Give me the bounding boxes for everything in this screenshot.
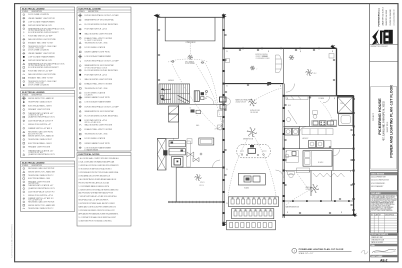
svg-text:SYMBOL: SYMBOL bbox=[22, 95, 28, 97]
plan: foyer wall upper bbox=[283, 48, 285, 83]
svg-text:DOOR CHIME LOCATION: DOOR CHIME LOCATION bbox=[85, 137, 106, 140]
plan: keynote flag bottom-center bbox=[222, 221, 227, 225]
svg-text:FLOOR MOUNTED DUPLEX RECEPTACL: FLOOR MOUNTED DUPLEX RECEPTACL bbox=[85, 114, 119, 117]
legend box B: ELECTRICAL LEGEND (switches) bbox=[21, 91, 75, 158]
svg-text:TELEPHONE / DATA OUTLET: TELEPHONE / DATA OUTLET bbox=[28, 138, 53, 141]
plan: circuit wiring arcs bbox=[168, 43, 223, 131]
svg-text:LOW VOLTAGE TRANSFORMER: LOW VOLTAGE TRANSFORMER bbox=[85, 146, 112, 149]
svg-text:$: $ bbox=[334, 98, 335, 100]
svg-text:QUADPLEX RECEPTACLE OUTL: QUADPLEX RECEPTACLE OUTL bbox=[28, 153, 55, 156]
svg-text:ELECTRICAL LEGEND: ELECTRICAL LEGEND bbox=[22, 161, 45, 164]
svg-text:TELEVISION OUTLET - RG6: TELEVISION OUTLET - RG6 bbox=[85, 134, 108, 136]
svg-text:WALL MOUNTED LIGHT FIXTURE: WALL MOUNTED LIGHT FIXTURE bbox=[85, 78, 113, 81]
svg-text:TELEPHONE / DATA OUTLET C: TELEPHONE / DATA OUTLET C bbox=[28, 207, 54, 210]
svg-text:SYMBOL: SYMBOL bbox=[22, 165, 28, 167]
svg-text:SYMBOL: SYMBOL bbox=[22, 11, 28, 13]
svg-text:DOOR OPENER: DOOR OPENER bbox=[185, 63, 195, 65]
title block: company info (rotated) bbox=[379, 7, 396, 26]
svg-text:ELECTRICAL NOTES: ELECTRICAL NOTES bbox=[79, 153, 100, 156]
svg-text:RECESSED CAN LIGHT FIXTUR: RECESSED CAN LIGHT FIXTUR bbox=[28, 167, 55, 170]
plan: kitchen island bbox=[237, 145, 270, 158]
plan: master bath fixtures bbox=[284, 168, 354, 201]
plan: ceiling fan dining bbox=[306, 70, 317, 76]
svg-text:FLOOR MOUNTED DUPLEX RECEPT: FLOOR MOUNTED DUPLEX RECEPT bbox=[28, 67, 59, 69]
svg-text:ELECTRICAL LEGEND: ELECTRICAL LEGEND bbox=[79, 7, 102, 10]
svg-text:RECESSED CAN LIGHT FIXTUR: RECESSED CAN LIGHT FIXTUR bbox=[28, 200, 55, 203]
svg-text:457 JUAN LANE, FAIRHOPE AL 365: 457 JUAN LANE, FAIRHOPE AL 36532 bbox=[383, 101, 386, 141]
svg-text:DESCRIPTION: DESCRIPTION bbox=[32, 11, 42, 13]
svg-text:$: $ bbox=[332, 51, 333, 53]
svg-text:POWER AND LIGHTING PLAN -1ST F: POWER AND LIGHTING PLAN -1ST FLOOR bbox=[299, 248, 344, 251]
svg-text:$: $ bbox=[287, 212, 288, 214]
svg-text:$: $ bbox=[227, 51, 228, 53]
plan: wall-mounted panel on living wall bbox=[267, 82, 271, 85]
plan: bottom wall bbox=[284, 214, 354, 216]
svg-text:220V RECEPTACLE OUTLET F: 220V RECEPTACLE OUTLET F bbox=[28, 119, 53, 122]
svg-text:DESCRIPTION: DESCRIPTION bbox=[32, 165, 42, 167]
legend box C: ELECTRICAL LEGEND (low voltage) bbox=[21, 161, 75, 212]
plan: porch band 2 bbox=[232, 209, 274, 219]
title block left divider bbox=[369, 4, 371, 262]
svg-text:AE-2: AE-2 bbox=[380, 258, 387, 262]
plan: main electrical panel bbox=[220, 97, 253, 109]
plan: south hatched wall bbox=[168, 201, 224, 203]
plan: open deck rectangle bbox=[165, 17, 215, 44]
title block: drawn-by bar bbox=[370, 233, 397, 244]
svg-text:SMOKE DETECTOR - HARD WIR: SMOKE DETECTOR - HARD WIR bbox=[28, 170, 56, 173]
svg-text:ELECTRICAL PANEL - SEE R: ELECTRICAL PANEL - SEE R bbox=[28, 142, 52, 145]
svg-text:THERMOSTAT LOCATION +60": THERMOSTAT LOCATION +60" bbox=[28, 112, 54, 115]
svg-text:WEATHERPROOF GFCI RECEPTAC: WEATHERPROOF GFCI RECEPTAC bbox=[85, 110, 115, 113]
plan: kitchen counters and appliances bbox=[284, 96, 337, 127]
reviewer pencil mark bbox=[361, 250, 368, 254]
svg-text:$: $ bbox=[268, 51, 269, 53]
title block: divider under logo bbox=[370, 45, 398, 62]
title block: LJB logo (rotated glyph blob) bbox=[372, 29, 393, 44]
plan: laundry room bbox=[284, 126, 354, 170]
plan: closet column with X braces bbox=[157, 139, 167, 171]
plan: porch band 1 bbox=[228, 197, 278, 207]
svg-text:DOOR CHIME LOCATION: DOOR CHIME LOCATION bbox=[85, 46, 106, 49]
plan: switch bank by stairs bbox=[161, 90, 208, 101]
svg-text:DESCRIPTION: DESCRIPTION bbox=[385, 215, 394, 217]
drawing title bubble bbox=[292, 248, 352, 255]
svg-text:QUADPLEX RECEPTACLE OUTL: QUADPLEX RECEPTACLE OUTL bbox=[28, 187, 55, 190]
svg-text:PHONE 251.555.0188: PHONE 251.555.0188 bbox=[390, 10, 392, 26]
svg-text:DOOR CHIME LOCATION: DOOR CHIME LOCATION bbox=[28, 13, 49, 16]
plan: hall wall bbox=[178, 105, 180, 139]
svg-text:FOUR WAY SWITCH +42" A: FOUR WAY SWITCH +42" A bbox=[85, 119, 108, 122]
svg-text:THERMOSTAT LOCATION +60": THERMOSTAT LOCATION +60" bbox=[28, 149, 54, 152]
svg-text:KP: KP bbox=[197, 115, 199, 117]
svg-text:QUADPLEX RECEPTACLE OUTL: QUADPLEX RECEPTACLE OUTL bbox=[28, 116, 55, 119]
svg-text:06.14.23 CONSTRUCTION: 06.14.23 CONSTRUCTION bbox=[371, 180, 389, 182]
plan: top right niche bbox=[226, 54, 335, 63]
plan: keynote flag top-center bbox=[222, 13, 227, 17]
svg-text:CT: CT bbox=[190, 107, 192, 109]
plan: ceiling fan master bbox=[310, 185, 318, 193]
plan: closet top wall bbox=[157, 138, 178, 140]
svg-text:SMOKE DETECTOR - HARD WIR: SMOKE DETECTOR - HARD WIR bbox=[28, 204, 56, 207]
svg-text:TELEVISION OUTLET - RG6: TELEVISION OUTLET - RG6 bbox=[85, 88, 108, 90]
title block: project cell border bbox=[370, 87, 398, 171]
svg-text:SMOKE DETECTOR - HARD WI: SMOKE DETECTOR - HARD WI bbox=[28, 97, 54, 100]
title block: seal bar and signature bbox=[370, 244, 397, 253]
svg-text:FOUR WAY SWITCH +42" AFF: FOUR WAY SWITCH +42" AFF bbox=[28, 34, 52, 37]
svg-text:SINGLE POLE SWITCH +42" A: SINGLE POLE SWITCH +42" A bbox=[28, 194, 53, 197]
svg-text:DESCRIPTION: DESCRIPTION bbox=[88, 11, 98, 13]
plan: garage bottom wall bbox=[157, 104, 223, 106]
plan: garage door symbols bbox=[171, 60, 204, 65]
svg-text:07.01.23 REVISION 1: 07.01.23 REVISION 1 bbox=[371, 183, 385, 185]
svg-text:PROJECT: PROJECT bbox=[373, 113, 375, 121]
svg-text:$: $ bbox=[341, 212, 342, 214]
svg-text:EXHAUST FAN - VENT TO EXT: EXHAUST FAN - VENT TO EXT bbox=[28, 77, 54, 80]
plan: island counter 2 bbox=[238, 174, 265, 190]
plan: hall wall boxes bbox=[218, 111, 224, 130]
plan: bath partition and closet details bbox=[296, 171, 332, 202]
svg-text:RECESSED CAN LIGHT FIXTU: RECESSED CAN LIGHT FIXTU bbox=[28, 131, 54, 134]
svg-text:UNDER CABINET LIGHT FIXTU: UNDER CABINET LIGHT FIXTU bbox=[85, 142, 111, 145]
svg-text:FLOOR MOUNTED DUPLEX RECEPT: FLOOR MOUNTED DUPLEX RECEPT bbox=[28, 32, 59, 34]
plan: central thick wall (cased with rungs) bbox=[222, 15, 225, 227]
svg-text:POWER AND LIGHTING PLAN -1ST F: POWER AND LIGHTING PLAN -1ST FLOOR bbox=[390, 85, 394, 158]
plan: stairs with treads bbox=[159, 84, 190, 103]
plan: garage left wall bbox=[156, 17, 158, 104]
svg-text:$: $ bbox=[227, 86, 228, 88]
svg-text:$: $ bbox=[300, 51, 301, 53]
plan: master bed bbox=[286, 151, 332, 209]
svg-text:EXISTING CEILING: EXISTING CEILING bbox=[256, 54, 268, 56]
plan: dining fan cluster bbox=[250, 66, 257, 71]
svg-text:$: $ bbox=[286, 151, 287, 153]
svg-text:EXHAUST FAN - VENT TO EXT: EXHAUST FAN - VENT TO EXT bbox=[28, 41, 54, 44]
plan: ceiling fan great room bbox=[247, 128, 256, 137]
plan: study north wall bbox=[176, 160, 223, 168]
plan: keynote flag bottom-right bbox=[352, 213, 357, 217]
plan: circuit arcs right wing bbox=[228, 88, 332, 205]
plan: ceiling fan living bbox=[249, 99, 257, 106]
margin note (rotated faint text) bbox=[11, 223, 14, 258]
svg-text:ISSUE / REVISION: ISSUE / REVISION bbox=[371, 174, 384, 176]
legend box D: ELECTRICAL LEGEND (fixtures) bbox=[77, 7, 131, 151]
plan: curved stair / piano shape bbox=[276, 55, 283, 73]
svg-text:LOW VOLTAGE TRANSFORMER: LOW VOLTAGE TRANSFORMER bbox=[85, 55, 112, 58]
svg-text:$: $ bbox=[350, 171, 351, 173]
plan: right wall rungs bbox=[353, 98, 355, 211]
plan: keynote flag top-left bbox=[154, 14, 161, 18]
svg-text:FOUR WAY SWITCH +42" A: FOUR WAY SWITCH +42" A bbox=[85, 28, 108, 31]
svg-text:OPEN DECK: OPEN DECK bbox=[186, 42, 197, 44]
svg-text:TELEPHONE / DATA OUTLET C: TELEPHONE / DATA OUTLET C bbox=[28, 174, 54, 177]
svg-text:DINING: DINING bbox=[262, 56, 267, 58]
svg-text:CLOSET: CLOSET bbox=[306, 189, 311, 191]
title block: issue block bbox=[370, 172, 397, 190]
svg-text:LOW VOLTAGE TRANSFORMER: LOW VOLTAGE TRANSFORMER bbox=[85, 101, 112, 104]
svg-text:NO: NO bbox=[371, 215, 373, 217]
svg-text:$: $ bbox=[227, 169, 228, 171]
svg-text:$: $ bbox=[309, 171, 310, 173]
title block: project cell bbox=[373, 85, 394, 158]
svg-text:EXHAUST FAN - VENT TO EXTER: EXHAUST FAN - VENT TO EXTER bbox=[85, 128, 113, 131]
plan: receptacle symbols bbox=[158, 29, 353, 214]
svg-text:PENDANT LIGHT FIXTURE: PENDANT LIGHT FIXTURE bbox=[28, 146, 51, 149]
svg-text:$: $ bbox=[287, 98, 288, 100]
plan: right wing top wall bbox=[224, 47, 337, 50]
plan: media built-ins top of study bbox=[187, 138, 214, 145]
svg-text:STUDY: STUDY bbox=[200, 182, 205, 184]
svg-text:EXHAUST FAN - VENT TO EXTER: EXHAUST FAN - VENT TO EXTER bbox=[85, 82, 113, 85]
plan: garage top wall bbox=[157, 16, 223, 18]
svg-text:06.02.23 PERMIT SET: 06.02.23 PERMIT SET bbox=[371, 177, 386, 179]
plan: fireplace built-ins bbox=[169, 139, 190, 168]
svg-text:WALL MOUNTED LIGHT FIXTURE: WALL MOUNTED LIGHT FIXTURE bbox=[28, 38, 56, 41]
svg-text:TELEVISION OUTLET - RG6: TELEVISION OUTLET - RG6 bbox=[85, 42, 108, 44]
plan: porch steps band 3 bbox=[227, 220, 276, 230]
title block: sheet number bbox=[370, 255, 397, 262]
svg-text:$3: $3 bbox=[205, 94, 207, 96]
plan: jog wall bbox=[337, 95, 354, 97]
svg-text:SCALE: 1/4" = 1'-0": SCALE: 1/4" = 1'-0" bbox=[299, 252, 314, 255]
svg-text:FLOOR MOUNTED DUPLEX RECEPTACL: FLOOR MOUNTED DUPLEX RECEPTACL bbox=[85, 69, 119, 72]
svg-text:WALL MOUNTED LIGHT FIXTURE: WALL MOUNTED LIGHT FIXTURE bbox=[85, 124, 113, 127]
svg-text:UNDER CABINET LIGHT FIXTUR: UNDER CABINET LIGHT FIXTUR bbox=[28, 52, 55, 55]
svg-text:$: $ bbox=[173, 139, 174, 141]
plan: master closet boxes bbox=[285, 151, 298, 163]
svg-text:UNDER CABINET LIGHT FIXTUR: UNDER CABINET LIGHT FIXTUR bbox=[28, 17, 55, 20]
svg-text:PENDANT LIGHT FIXTURE: PENDANT LIGHT FIXTURE bbox=[28, 108, 51, 111]
plan: room labels bbox=[168, 56, 344, 187]
plan: study ceiling fan bbox=[195, 175, 201, 181]
legend box A: ELECTRICAL LEGEND (receptacles) bbox=[21, 7, 75, 88]
svg-text:LOW VOLTAGE TRANSFORMER: LOW VOLTAGE TRANSFORMER bbox=[28, 20, 55, 23]
svg-text:FOUR WAY SWITCH +42" A: FOUR WAY SWITCH +42" A bbox=[85, 73, 108, 76]
svg-text:MUD: MUD bbox=[288, 105, 291, 107]
svg-text:WEATHERPROOF GFCI RECEPTAC: WEATHERPROOF GFCI RECEPTAC bbox=[85, 19, 115, 22]
svg-text:ELECTRICAL LEGEND: ELECTRICAL LEGEND bbox=[22, 91, 45, 94]
plan: study west wall bbox=[175, 168, 177, 203]
svg-text:$: $ bbox=[227, 203, 228, 205]
plan: chase boxes bbox=[169, 106, 179, 122]
plan: switch symbols bbox=[227, 51, 352, 214]
svg-text:OFFICE: OFFICE bbox=[199, 185, 204, 187]
svg-text:WEATHERPROOF GFCI RECEPTACLE O: WEATHERPROOF GFCI RECEPTACLE OUTL bbox=[28, 63, 65, 66]
svg-text:LIVING ROOM: LIVING ROOM bbox=[250, 110, 260, 112]
svg-text:WEATHERPROOF GFCI RECEPTAC: WEATHERPROOF GFCI RECEPTAC bbox=[85, 64, 115, 67]
svg-text:CF-2: CF-2 bbox=[314, 73, 317, 75]
svg-text:FOUR WAY SWITCH +42" AFF: FOUR WAY SWITCH +42" AFF bbox=[28, 70, 52, 73]
svg-text:$: $ bbox=[23, 150, 24, 152]
svg-text:TELEVISION OUTLET - RG6 COAX: TELEVISION OUTLET - RG6 COAX bbox=[28, 45, 57, 48]
svg-text:FLOOR MOUNTED DUPLEX RECEPTACL: FLOOR MOUNTED DUPLEX RECEPTACL bbox=[85, 23, 119, 26]
svg-text:DESCRIPTION: DESCRIPTION bbox=[32, 95, 42, 97]
svg-text:DIMMER SWITCH +42" AFF U: DIMMER SWITCH +42" AFF U bbox=[28, 127, 53, 130]
svg-text:$4: $4 bbox=[205, 98, 207, 100]
svg-text:UNDER CABINET LIGHT FIXTU: UNDER CABINET LIGHT FIXTU bbox=[85, 96, 111, 99]
svg-text:$: $ bbox=[280, 86, 281, 88]
svg-text:TELEVISION OUTLET - RG6 COAX: TELEVISION OUTLET - RG6 COAX bbox=[28, 80, 57, 83]
plan: kitchen north wall bbox=[284, 95, 354, 97]
plan: keynote flag top-right bbox=[331, 45, 336, 49]
svg-text:ELECTRICAL PANEL - SEE R: ELECTRICAL PANEL - SEE R bbox=[28, 104, 52, 107]
svg-text:$: $ bbox=[286, 171, 287, 173]
svg-text:POWERWORKS LLC: POWERWORKS LLC bbox=[379, 7, 381, 26]
svg-text:SINGLE POLE SWITCH +42": SINGLE POLE SWITCH +42" bbox=[28, 124, 51, 126]
plan: flex bow-tie symbols bbox=[187, 152, 202, 162]
plan: dining label block bbox=[256, 54, 270, 60]
svg-text:ELECTRICAL PANEL - SEE: ELECTRICAL PANEL - SEE bbox=[28, 177, 51, 180]
plan: ceiling fan deck bbox=[188, 55, 193, 60]
plan: right wall lower bbox=[353, 96, 355, 216]
svg-text:PROJECT NO: 2301-457: PROJECT NO: 2301-457 bbox=[371, 46, 388, 48]
svg-text:SMOKE DETECTOR - HARD WI: SMOKE DETECTOR - HARD WI bbox=[28, 134, 54, 137]
plan: right wall upper bbox=[336, 48, 338, 95]
plan: rear stair X boxes bbox=[338, 97, 353, 125]
title block: revision table bbox=[370, 213, 397, 233]
plan: living/kitchen divide wall bbox=[224, 84, 295, 93]
plan: bedroom south wall ticks bbox=[292, 200, 350, 202]
svg-text:WALL MOUNTED LIGHT FIXTURE: WALL MOUNTED LIGHT FIXTURE bbox=[28, 73, 56, 76]
svg-text:THERMOSTAT LOCATION +60": THERMOSTAT LOCATION +60" bbox=[28, 184, 54, 187]
svg-text:DUPLEX RECEPTACLE OUTLET +18": DUPLEX RECEPTACLE OUTLET +18" AFF bbox=[85, 60, 119, 63]
svg-text:ELECTRICAL LEGEND: ELECTRICAL LEGEND bbox=[22, 7, 45, 10]
svg-text:SYMBOL: SYMBOL bbox=[79, 11, 85, 13]
svg-text:DOOR CHIME LOCATION: DOOR CHIME LOCATION bbox=[28, 48, 49, 51]
plan: master west thick wall (cased with rungs) bbox=[282, 84, 285, 218]
plan: ceiling fan foyer bbox=[289, 55, 294, 60]
svg-text:20850 HWY 181 SUITE 4: 20850 HWY 181 SUITE 4 bbox=[383, 7, 385, 25]
svg-text:$: $ bbox=[80, 61, 81, 63]
svg-text:220V RECEPTACLE OUTLET FO: 220V RECEPTACLE OUTLET FO bbox=[28, 190, 55, 193]
svg-text:TELEPHONE / DATA OUTLET: TELEPHONE / DATA OUTLET bbox=[28, 101, 53, 104]
legend box E: ELECTRICAL NOTES bbox=[77, 153, 131, 227]
svg-text:$: $ bbox=[23, 32, 24, 34]
plan: door swing arcs bbox=[206, 96, 330, 178]
svg-text:DUPLEX RECEPTACLE OUTLET +18": DUPLEX RECEPTACLE OUTLET +18" AFF bbox=[85, 105, 119, 108]
svg-text:DOOR CHIME LOCATION: DOOR CHIME LOCATION bbox=[85, 92, 106, 95]
svg-text:DUPLEX RECEPTACLE OUTLET +18": DUPLEX RECEPTACLE OUTLET +18" AFF bbox=[85, 14, 119, 17]
svg-text:DUPLEX RECEPTACLE OUTL: DUPLEX RECEPTACLE OUTL bbox=[28, 24, 52, 27]
title block: notes paragraph block bbox=[370, 192, 397, 213]
svg-text:WEATHERPROOF GFCI RECEPTACLE O: WEATHERPROOF GFCI RECEPTACLE OUTL bbox=[28, 27, 65, 30]
svg-text:WALL MOUNTED LIGHT FIXTURE: WALL MOUNTED LIGHT FIXTURE bbox=[85, 32, 113, 35]
svg-text:LOW VOLTAGE TRANSFORMER: LOW VOLTAGE TRANSFORMER bbox=[28, 55, 55, 58]
svg-text:PICKERING HOUSE: PICKERING HOUSE bbox=[377, 98, 382, 135]
svg-text:UNDER CABINET LIGHT FIXTU: UNDER CABINET LIGHT FIXTU bbox=[85, 51, 111, 54]
svg-text:BY: BY bbox=[379, 215, 381, 217]
plan: hall keypad cluster bbox=[190, 107, 201, 117]
svg-text:EXHAUST FAN - VENT TO EXTER: EXHAUST FAN - VENT TO EXTER bbox=[85, 37, 113, 40]
svg-text:DOOR CHIME LOCATION: DOOR CHIME LOCATION bbox=[28, 84, 49, 87]
svg-text:DUPLEX RECEPTACLE OUTL: DUPLEX RECEPTACLE OUTL bbox=[28, 59, 52, 62]
